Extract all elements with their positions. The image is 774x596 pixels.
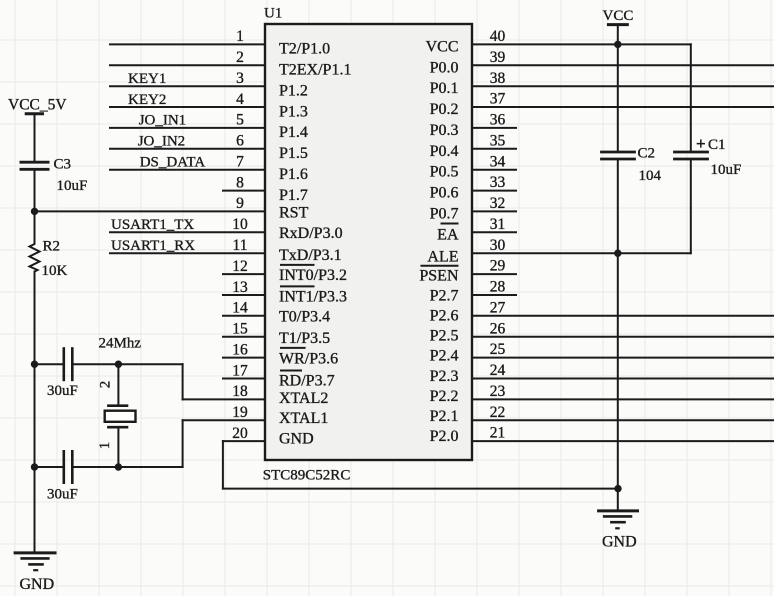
svg-text:P0.4: P0.4 [430,143,459,160]
svg-text:ALE: ALE [427,248,458,265]
svg-text:11: 11 [233,237,248,254]
svg-text:10uF: 10uF [57,178,88,194]
svg-text:U1: U1 [264,6,282,22]
svg-text:P0.0: P0.0 [430,59,459,76]
svg-text:35: 35 [490,132,506,149]
svg-text:P1.3: P1.3 [279,103,308,120]
svg-text:P2.2: P2.2 [430,388,459,405]
svg-text:P0.7: P0.7 [430,205,459,222]
svg-text:13: 13 [232,279,248,296]
svg-text:RST: RST [279,204,309,221]
svg-text:VCC: VCC [603,8,634,24]
svg-text:5: 5 [236,112,244,129]
svg-text:3: 3 [236,70,244,87]
svg-text:+: + [696,134,706,153]
svg-text:7: 7 [236,154,244,171]
svg-text:22: 22 [490,404,506,421]
svg-text:P0.6: P0.6 [430,185,459,202]
svg-text:2: 2 [97,381,113,389]
svg-text:STC89C52RC: STC89C52RC [263,468,351,484]
svg-text:27: 27 [490,299,506,316]
svg-text:P1.2: P1.2 [279,83,308,100]
svg-text:P2.0: P2.0 [430,428,459,445]
svg-text:P2.4: P2.4 [430,348,459,365]
svg-text:6: 6 [236,133,244,150]
svg-text:39: 39 [490,49,506,66]
svg-text:20: 20 [232,425,248,442]
svg-text:P0.1: P0.1 [430,80,459,97]
svg-text:RxD/P3.0: RxD/P3.0 [279,225,343,242]
svg-text:10: 10 [232,216,248,233]
svg-text:TxD/P3.1: TxD/P3.1 [279,247,342,264]
svg-text:16: 16 [232,341,248,358]
svg-text:10K: 10K [42,263,68,279]
svg-text:38: 38 [490,70,506,87]
svg-text:JO_IN2: JO_IN2 [138,134,186,150]
svg-text:P2.6: P2.6 [430,308,459,325]
svg-text:36: 36 [490,112,506,129]
svg-text:T1/P3.5: T1/P3.5 [279,330,330,347]
svg-text:VCC: VCC [426,38,459,55]
svg-text:30uF: 30uF [47,383,78,399]
svg-text:31: 31 [490,216,506,233]
svg-text:INT0/P3.2: INT0/P3.2 [279,267,347,284]
svg-text:RD/P3.7: RD/P3.7 [279,373,335,390]
svg-text:21: 21 [490,425,506,442]
svg-text:P2.3: P2.3 [430,368,459,385]
svg-text:26: 26 [490,320,506,337]
svg-text:P0.2: P0.2 [430,101,459,118]
svg-text:T2/P1.0: T2/P1.0 [279,41,330,58]
svg-text:T0/P3.4: T0/P3.4 [279,309,330,326]
svg-text:37: 37 [490,91,506,108]
svg-text:4: 4 [236,91,244,108]
svg-text:30: 30 [490,237,506,254]
svg-text:104: 104 [639,168,662,184]
svg-text:1: 1 [97,442,113,450]
svg-text:25: 25 [490,341,506,358]
svg-text:DS_DATA: DS_DATA [140,155,206,171]
svg-text:GND: GND [20,576,55,593]
svg-text:1: 1 [236,28,244,45]
svg-text:PSEN: PSEN [419,267,459,284]
svg-text:C1: C1 [708,137,726,153]
svg-text:C3: C3 [54,157,72,173]
svg-text:KEY2: KEY2 [128,92,166,108]
svg-text:P1.5: P1.5 [279,145,308,162]
svg-text:P0.3: P0.3 [430,122,459,139]
svg-text:INT1/P3.3: INT1/P3.3 [279,289,347,306]
svg-text:KEY1: KEY1 [128,71,166,87]
svg-text:9: 9 [236,195,244,212]
svg-text:XTAL1: XTAL1 [279,410,328,427]
svg-text:32: 32 [490,195,506,212]
svg-text:R2: R2 [43,239,61,255]
svg-text:P2.7: P2.7 [430,287,459,304]
svg-text:P2.1: P2.1 [430,408,459,425]
svg-text:30uF: 30uF [47,487,78,503]
svg-text:WR/P3.6: WR/P3.6 [279,351,338,368]
svg-text:XTAL2: XTAL2 [279,390,328,407]
svg-text:34: 34 [490,153,506,170]
svg-text:P1.6: P1.6 [279,166,308,183]
svg-text:10uF: 10uF [711,162,742,178]
svg-text:T2EX/P1.1: T2EX/P1.1 [279,62,351,79]
svg-text:28: 28 [490,279,506,296]
svg-text:23: 23 [490,383,506,400]
svg-text:12: 12 [232,258,248,275]
svg-text:P1.4: P1.4 [279,124,308,141]
svg-text:18: 18 [232,383,248,400]
svg-text:USART1_RX: USART1_RX [111,238,195,254]
svg-text:2: 2 [236,49,244,66]
svg-text:14: 14 [232,300,248,317]
svg-text:EA: EA [437,226,459,243]
svg-text:24: 24 [490,362,506,379]
svg-text:15: 15 [232,321,248,338]
svg-text:GND: GND [602,534,637,551]
svg-text:29: 29 [490,258,506,275]
svg-text:19: 19 [232,404,248,421]
svg-text:JO_IN1: JO_IN1 [139,113,187,129]
svg-text:8: 8 [236,174,244,191]
svg-text:24Mhz: 24Mhz [99,336,142,352]
svg-text:17: 17 [232,362,248,379]
svg-text:C2: C2 [638,146,656,162]
svg-text:40: 40 [490,28,506,45]
svg-text:P2.5: P2.5 [430,328,459,345]
svg-text:P1.7: P1.7 [279,187,308,204]
svg-text:P0.5: P0.5 [430,164,459,181]
svg-text:GND: GND [279,430,314,447]
svg-text:VCC_5V: VCC_5V [8,97,67,114]
svg-text:USART1_TX: USART1_TX [111,217,194,233]
svg-text:33: 33 [490,174,506,191]
